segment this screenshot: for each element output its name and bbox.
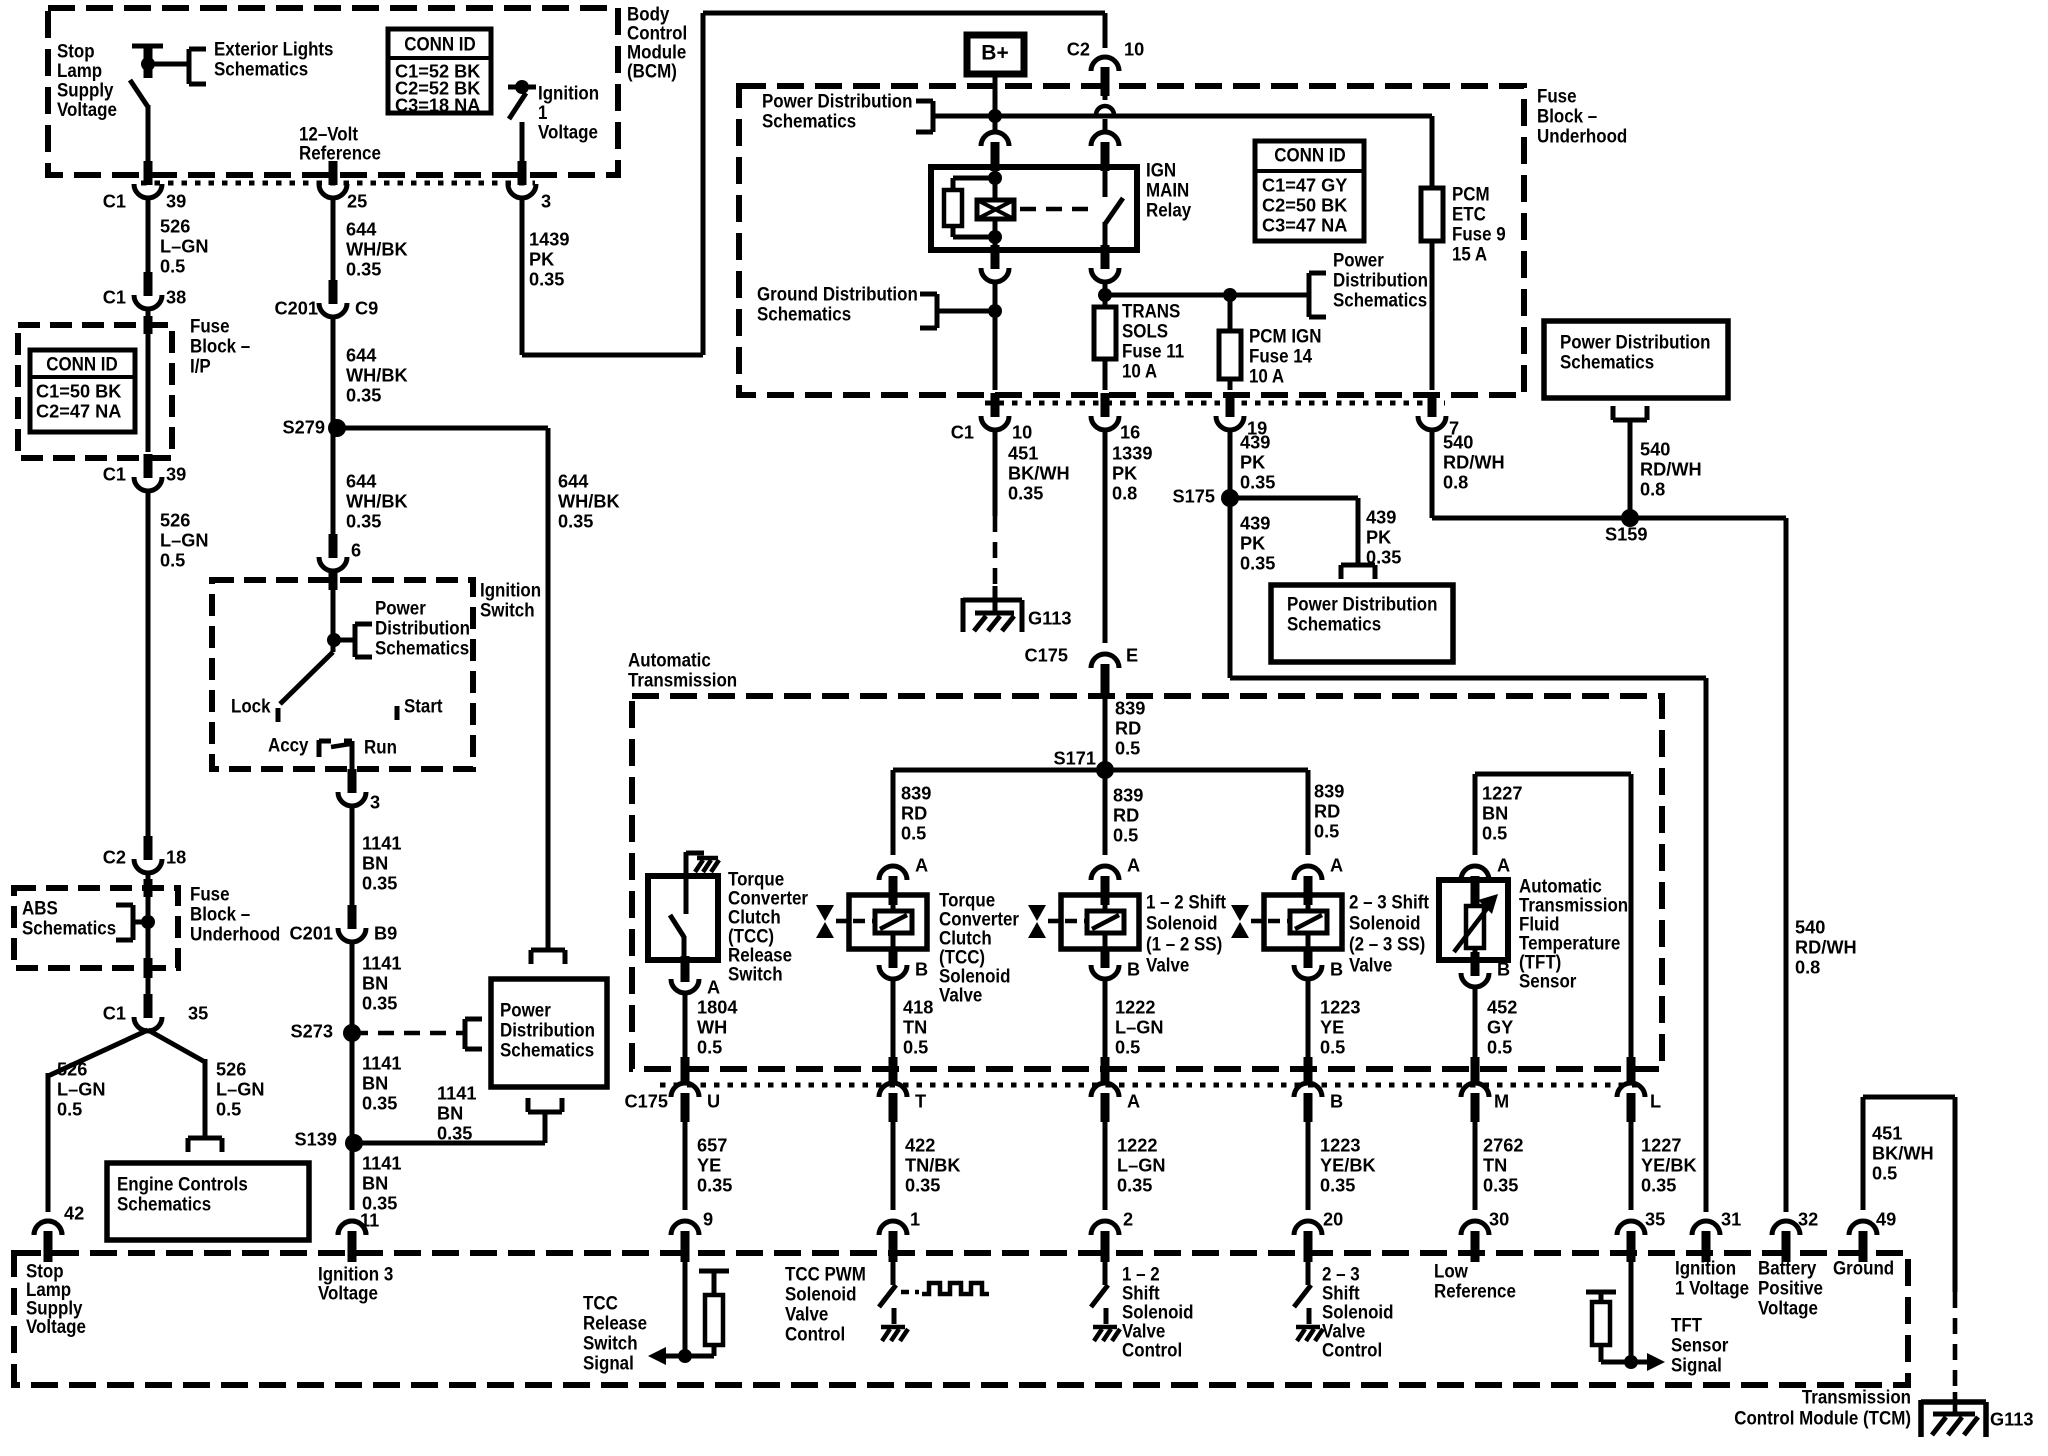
svg-text:2: 2 — [1123, 1209, 1133, 1229]
svg-text:1223: 1223 — [1320, 1135, 1360, 1155]
svg-text:526: 526 — [160, 216, 190, 236]
svg-text:0.35: 0.35 — [346, 385, 381, 405]
svg-text:B: B — [1330, 1091, 1343, 1111]
label 30 — [1489, 1209, 1509, 1229]
wire 422 TN/BK — [891, 1122, 896, 1210]
wire S175 branch right — [1230, 498, 1358, 565]
svg-text:1141: 1141 — [362, 953, 401, 973]
TFT Sensor Signal label — [1671, 1313, 1728, 1376]
connector C2 pin 10 (fuse block) — [1091, 57, 1119, 96]
power distribution line 2 — [1105, 288, 1309, 302]
svg-text:TN: TN — [903, 1017, 927, 1037]
svg-text:0.35: 0.35 — [1240, 553, 1275, 573]
bracket PDS box top — [531, 950, 565, 964]
svg-text:Schematics: Schematics — [1333, 288, 1427, 311]
splice S139 — [345, 1134, 363, 1152]
svg-text:C2: C2 — [1067, 39, 1090, 59]
wire 452 GY — [1473, 986, 1478, 1058]
label 1141 BN 0.35 (d) — [362, 1153, 401, 1213]
wire 526 L-GN (to C2-18) — [146, 490, 151, 840]
svg-text:S159: S159 — [1605, 524, 1647, 544]
label 1141 BN 0.35 (a) — [362, 833, 401, 893]
svg-text:M: M — [1494, 1091, 1509, 1111]
stub at transmission boundary (B) — [1304, 1057, 1313, 1082]
wire 1-2 B down — [1103, 978, 1108, 1058]
ground G113 (engine) — [963, 598, 1022, 632]
label G113 (TCM) — [1990, 1409, 2034, 1429]
PCM IGN Fuse 14 label — [1249, 324, 1321, 387]
label G113 (engine) — [1028, 608, 1072, 628]
label S139 — [295, 1129, 337, 1149]
stub at transmission boundary (M) — [1471, 1057, 1480, 1082]
svg-text:0.5: 0.5 — [1314, 821, 1339, 841]
Start label — [404, 694, 443, 717]
wire 1141 BN (3 to B9) — [350, 805, 355, 909]
svg-text:0.35: 0.35 — [362, 873, 397, 893]
label 439 PK 0.35 (branch) — [1366, 507, 1401, 567]
connector C1 pin 39 (I/P out) — [134, 454, 162, 491]
svg-text:Switch: Switch — [480, 598, 535, 621]
svg-text:TN: TN — [1483, 1155, 1507, 1175]
Torque Converter Clutch Release Switch label — [728, 867, 808, 985]
label 422 TN/BK 0.35 — [905, 1135, 961, 1195]
svg-text:S171: S171 — [1054, 748, 1096, 768]
svg-text:1222: 1222 — [1115, 997, 1155, 1017]
label C175 (U) — [625, 1091, 668, 1111]
svg-text:0.5: 0.5 — [1115, 1037, 1140, 1057]
label T — [915, 1091, 926, 1111]
svg-text:(2 – 3 SS): (2 – 3 SS) — [1349, 932, 1425, 955]
label 452 GY 0.5 — [1487, 997, 1517, 1057]
2-3 Shift Solenoid label — [1349, 890, 1429, 976]
connector relay coil-side exit — [981, 245, 1009, 282]
connector TCM pin 20 — [1294, 1221, 1322, 1262]
Fuse Block Underhood dashed box — [739, 86, 1524, 395]
svg-text:0.35: 0.35 — [1117, 1175, 1152, 1195]
svg-text:BK/WH: BK/WH — [1008, 463, 1070, 483]
IGN MAIN Relay label — [1146, 158, 1192, 221]
TFT sensor element — [1454, 880, 1498, 960]
wire C2-10 down — [1103, 119, 1108, 133]
label B (1-2) — [1127, 959, 1140, 979]
connector C1 pin 38 — [134, 272, 162, 309]
node stop-lamp / exterior-lights junction — [141, 57, 190, 71]
12-Volt Reference label — [299, 122, 381, 164]
connector row C175 dotted line — [660, 1083, 1643, 1088]
svg-text:CONN ID: CONN ID — [404, 32, 475, 55]
svg-text:0.35: 0.35 — [362, 993, 397, 1013]
label 7 — [1449, 418, 1459, 438]
wire stop lamp to C1-39 — [146, 105, 151, 166]
svg-text:Signal: Signal — [583, 1351, 634, 1374]
Ignition Switch dashed box — [212, 580, 473, 769]
svg-text:1223: 1223 — [1320, 997, 1360, 1017]
label 18 — [166, 847, 186, 867]
relay switch blade — [1105, 198, 1123, 224]
label 644 WH/BK 0.35 (mid) — [346, 345, 408, 405]
1-2 shift solenoid valve — [1028, 866, 1139, 979]
connector TCM pin 35 — [1617, 1221, 1645, 1262]
relay coil bottom node — [988, 219, 1002, 250]
svg-text:39: 39 — [166, 191, 186, 211]
svg-text:Sensor: Sensor — [1519, 969, 1576, 992]
Transmission Control Module label — [1734, 1385, 1911, 1429]
connector pin 16 — [1091, 393, 1119, 430]
svg-text:C1: C1 — [103, 287, 126, 307]
Fuse Block I/P label — [190, 314, 250, 377]
svg-text:Control Module (TCM): Control Module (TCM) — [1734, 1406, 1911, 1429]
svg-text:C1: C1 — [103, 464, 126, 484]
connector C2 pin 18 — [134, 836, 162, 873]
svg-text:0.35: 0.35 — [697, 1175, 732, 1195]
bracket ground distribution — [920, 294, 937, 328]
svg-text:TN/BK: TN/BK — [905, 1155, 961, 1175]
svg-text:451: 451 — [1872, 1123, 1902, 1143]
TCC PWM Solenoid Valve Control label — [785, 1262, 866, 1345]
svg-text:L–GN: L–GN — [1115, 1017, 1164, 1037]
label A (TCC release) — [707, 977, 720, 997]
Engine Controls Schematics label — [117, 1172, 248, 1215]
TCM dashed box — [14, 1253, 1908, 1385]
svg-text:B: B — [1127, 959, 1140, 979]
svg-text:Run: Run — [364, 735, 397, 758]
wire 644 WH/BK (25 to C9) — [331, 197, 336, 284]
connector TCM pin 31 — [1692, 1221, 1720, 1262]
label 657 YE 0.35 — [697, 1135, 732, 1195]
connector C175 T — [879, 1083, 907, 1122]
bracket to Exterior Lights Schematics — [189, 49, 206, 84]
TCC PWM dashed link — [901, 1290, 919, 1295]
svg-text:Signal: Signal — [1671, 1353, 1722, 1376]
BCM label — [627, 2, 687, 82]
wire coil-side to ground junction — [988, 281, 1002, 390]
svg-text:C201: C201 — [290, 923, 333, 943]
wire 1222 L-GN 0.35 — [1103, 1122, 1108, 1210]
svg-text:10: 10 — [1124, 39, 1144, 59]
svg-text:YE/BK: YE/BK — [1641, 1155, 1697, 1175]
svg-text:0.35: 0.35 — [346, 259, 381, 279]
svg-text:Schematics: Schematics — [214, 57, 308, 80]
svg-text:0.5: 0.5 — [1487, 1037, 1512, 1057]
svg-text:2 – 3 Shift: 2 – 3 Shift — [1349, 890, 1429, 913]
Power Distribution Schematics label 2a — [1333, 248, 1428, 311]
svg-text:Control: Control — [785, 1322, 845, 1345]
1-2 Shift Solenoid Valve Control label — [1122, 1262, 1193, 1361]
svg-text:BN: BN — [362, 853, 388, 873]
connector pin 25 — [319, 161, 347, 198]
S171 distribution line — [893, 768, 1308, 773]
label B (2-3) — [1330, 959, 1343, 979]
Automatic Transmission Fluid Temperature Sensor label — [1519, 874, 1628, 992]
PWM waveform — [922, 1283, 989, 1294]
svg-text:Reference: Reference — [1434, 1279, 1516, 1302]
svg-text:B: B — [1330, 959, 1343, 979]
connector C175 E — [1091, 654, 1119, 693]
svg-text:Valve: Valve — [1349, 953, 1392, 976]
svg-text:839: 839 — [1314, 781, 1344, 801]
connector TCM pin 2 — [1091, 1221, 1119, 1262]
label 1141 BN 0.35 (b) — [362, 953, 401, 1013]
Fuse Block Underhood label — [1537, 84, 1627, 147]
bracket PDS box bottom — [528, 1098, 562, 1112]
label 1141 BN 0.35 (c) — [362, 1053, 401, 1113]
TCC release signal arrow — [648, 1347, 666, 1365]
svg-text:0.8: 0.8 — [1640, 479, 1665, 499]
connector C175 M — [1461, 1083, 1489, 1122]
svg-text:32: 32 — [1798, 1209, 1818, 1229]
svg-text:839: 839 — [901, 783, 931, 803]
connector TCM pin 11 — [338, 1221, 366, 1262]
splice S171 — [1096, 761, 1114, 779]
2-3 shift solenoid valve — [1231, 866, 1342, 979]
connector pin 7 — [1418, 393, 1446, 430]
label C201 (C9) — [275, 298, 318, 318]
wire 644 WH/BK (S279 down) — [331, 428, 336, 538]
label S273 — [291, 1021, 333, 1041]
svg-text:540: 540 — [1443, 432, 1473, 452]
label 31 — [1721, 1209, 1741, 1229]
svg-text:Transmission: Transmission — [628, 668, 737, 691]
svg-text:20: 20 — [1323, 1209, 1343, 1229]
svg-text:A: A — [1127, 855, 1140, 875]
ignition 1 switch (BCM) — [508, 80, 536, 166]
Stop Lamp Supply Voltage label (BCM) — [57, 39, 117, 120]
TFT signal arrow — [1647, 1353, 1665, 1371]
bracket to Engine Controls box — [188, 1138, 222, 1152]
svg-text:PK: PK — [1240, 533, 1265, 553]
connector row C1 dotted line (BCM) — [141, 181, 535, 186]
label 2762 TN 0.35 — [1483, 1135, 1523, 1195]
stop lamp switch blade — [130, 80, 148, 107]
svg-text:540: 540 — [1640, 439, 1670, 459]
relay switch bottom — [1103, 222, 1108, 250]
label C2 — [103, 847, 126, 867]
Power Distribution Schematics box 3 — [1271, 585, 1453, 662]
label C1 (I/P out) — [103, 464, 126, 484]
wire 540 RD/WH pin7 — [1430, 429, 1435, 518]
svg-text:C1: C1 — [103, 1003, 126, 1023]
label 1804 WH 0.5 — [697, 997, 738, 1057]
svg-text:9: 9 — [703, 1209, 713, 1229]
svg-text:BK/WH: BK/WH — [1872, 1143, 1934, 1163]
svg-text:RD: RD — [1115, 718, 1141, 738]
wire TCC sol B down — [891, 978, 896, 1058]
relay switch top contact — [1103, 171, 1108, 197]
svg-text:Relay: Relay — [1146, 198, 1192, 221]
label A (1-2) — [1127, 855, 1140, 875]
Power Distribution Schematics label 2b — [1560, 330, 1710, 373]
TCC PWM switch ground — [881, 1327, 908, 1341]
stub at transmission boundary (A) — [1101, 1057, 1110, 1082]
label 10 — [1012, 422, 1032, 442]
label A (TCC sol) — [915, 855, 928, 875]
label 451 BK/WH 0.5 — [1872, 1123, 1934, 1183]
svg-text:0.5: 0.5 — [160, 550, 185, 570]
label C1 (pin38) — [103, 287, 126, 307]
svg-text:Schematics: Schematics — [1287, 612, 1381, 635]
label 839 RD 0.5 (TCC sol) — [901, 783, 931, 843]
svg-text:Schematics: Schematics — [500, 1038, 594, 1061]
svg-text:C9: C9 — [355, 298, 378, 318]
svg-text:E: E — [1126, 645, 1138, 665]
label 526 L-GN 0.5 (mid) — [160, 510, 209, 570]
label S175 — [1173, 486, 1215, 506]
svg-text:S175: S175 — [1173, 486, 1215, 506]
dashed link S273 to PDS box — [352, 1031, 465, 1036]
BCM dashed box — [48, 8, 618, 175]
connector A (TFT) — [1461, 866, 1489, 905]
TCC release switch blade — [670, 915, 684, 937]
ABS Schematics label — [22, 896, 116, 939]
svg-text:0.5: 0.5 — [697, 1037, 722, 1057]
stub at transmission boundary (U) — [681, 1057, 690, 1082]
relay IGN MAIN box — [931, 167, 1137, 250]
wire pin9 inside TCM — [683, 1262, 688, 1356]
Accy label — [268, 733, 309, 756]
Engine Controls Schematics box — [107, 1163, 309, 1240]
svg-text:644: 644 — [346, 345, 377, 365]
svg-text:U: U — [707, 1091, 720, 1111]
label 1339 PK 0.8 — [1112, 443, 1152, 503]
svg-text:10 A: 10 A — [1122, 359, 1157, 382]
svg-text:526: 526 — [216, 1059, 246, 1079]
svg-text:1227: 1227 — [1641, 1135, 1681, 1155]
bracket PDS box 2 — [1613, 406, 1647, 420]
wire 1141 BN (B9 to S273) — [350, 941, 355, 1033]
svg-text:L–GN: L–GN — [1117, 1155, 1166, 1175]
label B9 — [374, 923, 397, 943]
TCC release pull-up — [699, 1271, 729, 1356]
svg-text:1141: 1141 — [362, 1053, 401, 1073]
wire 2-3 B down — [1306, 978, 1311, 1058]
svg-text:839: 839 — [1113, 785, 1143, 805]
svg-text:C2=50 BK: C2=50 BK — [1262, 195, 1347, 215]
svg-text:A: A — [1127, 1091, 1140, 1111]
svg-text:Schematics: Schematics — [117, 1192, 211, 1215]
2-3 Shift Solenoid Valve Control label — [1322, 1262, 1393, 1361]
wire drop TCC solenoid — [891, 770, 896, 855]
splice S279 — [328, 419, 346, 437]
svg-text:1141: 1141 — [362, 833, 401, 853]
svg-text:Schematics: Schematics — [22, 916, 116, 939]
label B (TCC sol) — [915, 959, 928, 979]
Lock contact tick — [276, 708, 281, 722]
svg-text:BN: BN — [437, 1103, 463, 1123]
svg-text:B+: B+ — [981, 41, 1008, 64]
svg-text:49: 49 — [1876, 1209, 1896, 1229]
B+ box — [967, 35, 1024, 74]
bracket S273 to PDS box — [465, 1019, 482, 1049]
svg-text:Accy: Accy — [268, 733, 309, 756]
label 35 (left) — [188, 1003, 208, 1023]
svg-text:1439: 1439 — [529, 229, 569, 249]
wire split right diagonal — [148, 1030, 205, 1138]
connector TCM pin 49 — [1849, 1221, 1877, 1262]
svg-text:1: 1 — [910, 1209, 920, 1229]
wire pin35 inside TCM — [1624, 1262, 1638, 1369]
svg-text:35: 35 — [188, 1003, 208, 1023]
power distribution line — [933, 114, 1432, 119]
PCM ETC Fuse 9 label — [1452, 182, 1506, 265]
label 19 — [1247, 418, 1267, 438]
connector pin 3 (ign sw out) — [338, 769, 366, 806]
svg-text:0.35: 0.35 — [437, 1123, 472, 1143]
Ignition 3 Voltage label — [318, 1262, 393, 1304]
svg-text:RD/WH: RD/WH — [1640, 459, 1702, 479]
bracket to ABS — [116, 905, 133, 940]
svg-text:0.35: 0.35 — [558, 511, 593, 531]
svg-text:GY: GY — [1487, 1017, 1513, 1037]
svg-text:YE: YE — [697, 1155, 721, 1175]
label 16 — [1120, 422, 1140, 442]
label 3 (BCM) — [541, 191, 551, 211]
label 839 RD 0.5 (E) — [1115, 698, 1145, 758]
Ground label — [1833, 1256, 1894, 1279]
label 1222 L-GN 0.35 — [1117, 1135, 1166, 1195]
TCC release switch ground flag — [686, 852, 719, 876]
svg-text:B9: B9 — [374, 923, 397, 943]
svg-text:Ground: Ground — [1833, 1256, 1894, 1279]
splice S273 — [343, 1024, 361, 1042]
ABS schematics dashed box — [14, 888, 178, 968]
svg-text:Solenoid: Solenoid — [1146, 911, 1217, 934]
svg-text:CONN ID: CONN ID — [46, 352, 117, 375]
svg-text:0.35: 0.35 — [346, 511, 381, 531]
Start contact tick — [395, 706, 400, 720]
svg-text:WH/BK: WH/BK — [346, 491, 408, 511]
TCC Release Switch Signal label — [583, 1291, 647, 1374]
svg-text:PK: PK — [529, 249, 554, 269]
wire through ABS box — [146, 872, 151, 1000]
svg-text:422: 422 — [905, 1135, 935, 1155]
svg-text:644: 644 — [346, 471, 377, 491]
wire 1227 YE/BK — [1629, 1122, 1634, 1210]
label 526 L-GN 0.5 (split left) — [57, 1059, 106, 1119]
label 1227 BN 0.5 — [1482, 783, 1522, 843]
Run label — [364, 735, 397, 758]
wire TFT feed — [1475, 774, 1631, 855]
label C9 — [355, 298, 378, 318]
stop lamp switch T-bar — [132, 46, 163, 78]
label 25 — [347, 191, 367, 211]
label C1 (pin10) — [951, 422, 974, 442]
label 9 — [703, 1209, 713, 1229]
Accy contact — [319, 740, 331, 757]
splice S175 — [1221, 489, 1239, 507]
svg-text:0.5: 0.5 — [1113, 825, 1138, 845]
svg-text:C1: C1 — [951, 422, 974, 442]
wire 1141 BN (S273 to S139) — [350, 1033, 355, 1143]
wire ground 451 BK/WH (TCM) — [1863, 1097, 1955, 1392]
svg-text:L–GN: L–GN — [216, 1079, 265, 1099]
svg-text:C1=50 BK: C1=50 BK — [36, 381, 121, 401]
wire S139 to PDS box bottom — [354, 1112, 545, 1143]
label 6 — [351, 540, 361, 560]
label 39 (I/P out) — [166, 464, 186, 484]
svg-text:(1 – 2 SS): (1 – 2 SS) — [1146, 932, 1222, 955]
svg-text:YE: YE — [1320, 1017, 1344, 1037]
svg-text:BN: BN — [362, 1173, 388, 1193]
svg-text:C1=47 GY: C1=47 GY — [1262, 175, 1347, 195]
Ignition 1 Voltage label — [538, 81, 599, 143]
svg-text:Schematics: Schematics — [1560, 350, 1654, 373]
label 526 L-GN 0.5 (upper) — [160, 216, 209, 276]
svg-text:L–GN: L–GN — [160, 530, 209, 550]
stub at transmission boundary (T) — [889, 1057, 898, 1082]
label C1 (pin35) — [103, 1003, 126, 1023]
svg-text:1141: 1141 — [362, 1153, 401, 1173]
wire 439 PK lower — [1228, 498, 1233, 678]
